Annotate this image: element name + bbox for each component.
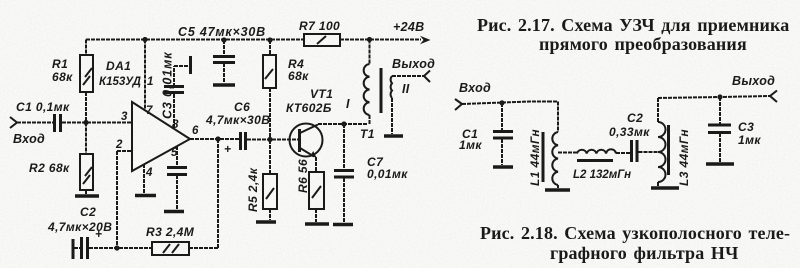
svg-text:+: + <box>224 142 231 156</box>
svg-text:1: 1 <box>147 76 153 88</box>
svg-text:прямого преобразования: прямого преобразования <box>539 34 747 54</box>
svg-text:DA1: DA1 <box>106 59 131 73</box>
svg-text:R2 68к: R2 68к <box>29 161 70 175</box>
svg-text:Вход: Вход <box>13 132 45 146</box>
svg-text:4,7мк×20В: 4,7мк×20В <box>47 220 112 234</box>
svg-text:С5 47мк×30В: С5 47мк×30В <box>178 25 266 39</box>
svg-text:+24В: +24В <box>393 20 424 34</box>
svg-text:Вход: Вход <box>459 81 491 95</box>
svg-text:Рис. 2.17. Схема УЗЧ для прием: Рис. 2.17. Схема УЗЧ для приемника <box>477 15 789 35</box>
svg-text:Рис. 2.18. Схема узкополосного: Рис. 2.18. Схема узкополосного теле- <box>480 223 790 243</box>
svg-text:4,7мк×30В: 4,7мк×30В <box>205 113 270 127</box>
svg-text:L3 44мГн: L3 44мГн <box>677 129 691 186</box>
svg-text:R6 56: R6 56 <box>296 159 310 193</box>
svg-text:С3: С3 <box>738 120 754 134</box>
svg-text:4: 4 <box>145 167 153 179</box>
svg-text:Выход: Выход <box>392 57 435 71</box>
svg-text:L1 44мГн: L1 44мГн <box>528 129 542 186</box>
svg-text:68к: 68к <box>52 70 73 84</box>
svg-text:R1: R1 <box>52 57 68 71</box>
svg-text:68к: 68к <box>288 69 309 83</box>
svg-text:VT1: VT1 <box>310 87 333 101</box>
svg-text:6: 6 <box>192 125 199 137</box>
svg-text:С3 0,01мк: С3 0,01мк <box>161 52 175 119</box>
svg-text:С2: С2 <box>80 205 96 219</box>
svg-text:графного фильтра НЧ: графного фильтра НЧ <box>550 243 738 263</box>
svg-text:1мк: 1мк <box>459 138 482 152</box>
svg-text:Т1: Т1 <box>360 127 375 141</box>
svg-text:8: 8 <box>172 119 179 131</box>
svg-text:КТ602Б: КТ602Б <box>286 101 332 115</box>
svg-text:С2: С2 <box>627 111 643 125</box>
svg-text:1мк: 1мк <box>738 133 761 147</box>
svg-text:R5 2,4к: R5 2,4к <box>246 167 260 212</box>
svg-text:5: 5 <box>171 147 178 159</box>
svg-text:7: 7 <box>146 105 153 117</box>
svg-text:Выход: Выход <box>732 74 775 88</box>
svg-text:0,33мк: 0,33мк <box>609 125 650 139</box>
svg-text:0,01мк: 0,01мк <box>367 167 408 181</box>
svg-text:I: I <box>346 97 350 111</box>
svg-text:С6: С6 <box>234 100 250 114</box>
svg-text:II: II <box>402 82 410 96</box>
svg-text:С1 0,1мк: С1 0,1мк <box>16 100 70 114</box>
svg-text:R7 100: R7 100 <box>299 19 340 33</box>
svg-text:L2 132мГн: L2 132мГн <box>573 169 631 181</box>
svg-text:2: 2 <box>115 139 123 151</box>
svg-text:R3 2,4М: R3 2,4М <box>146 225 195 239</box>
svg-text:3: 3 <box>121 111 128 123</box>
svg-text:+: + <box>95 227 102 241</box>
svg-text:К153УД: К153УД <box>99 76 141 88</box>
